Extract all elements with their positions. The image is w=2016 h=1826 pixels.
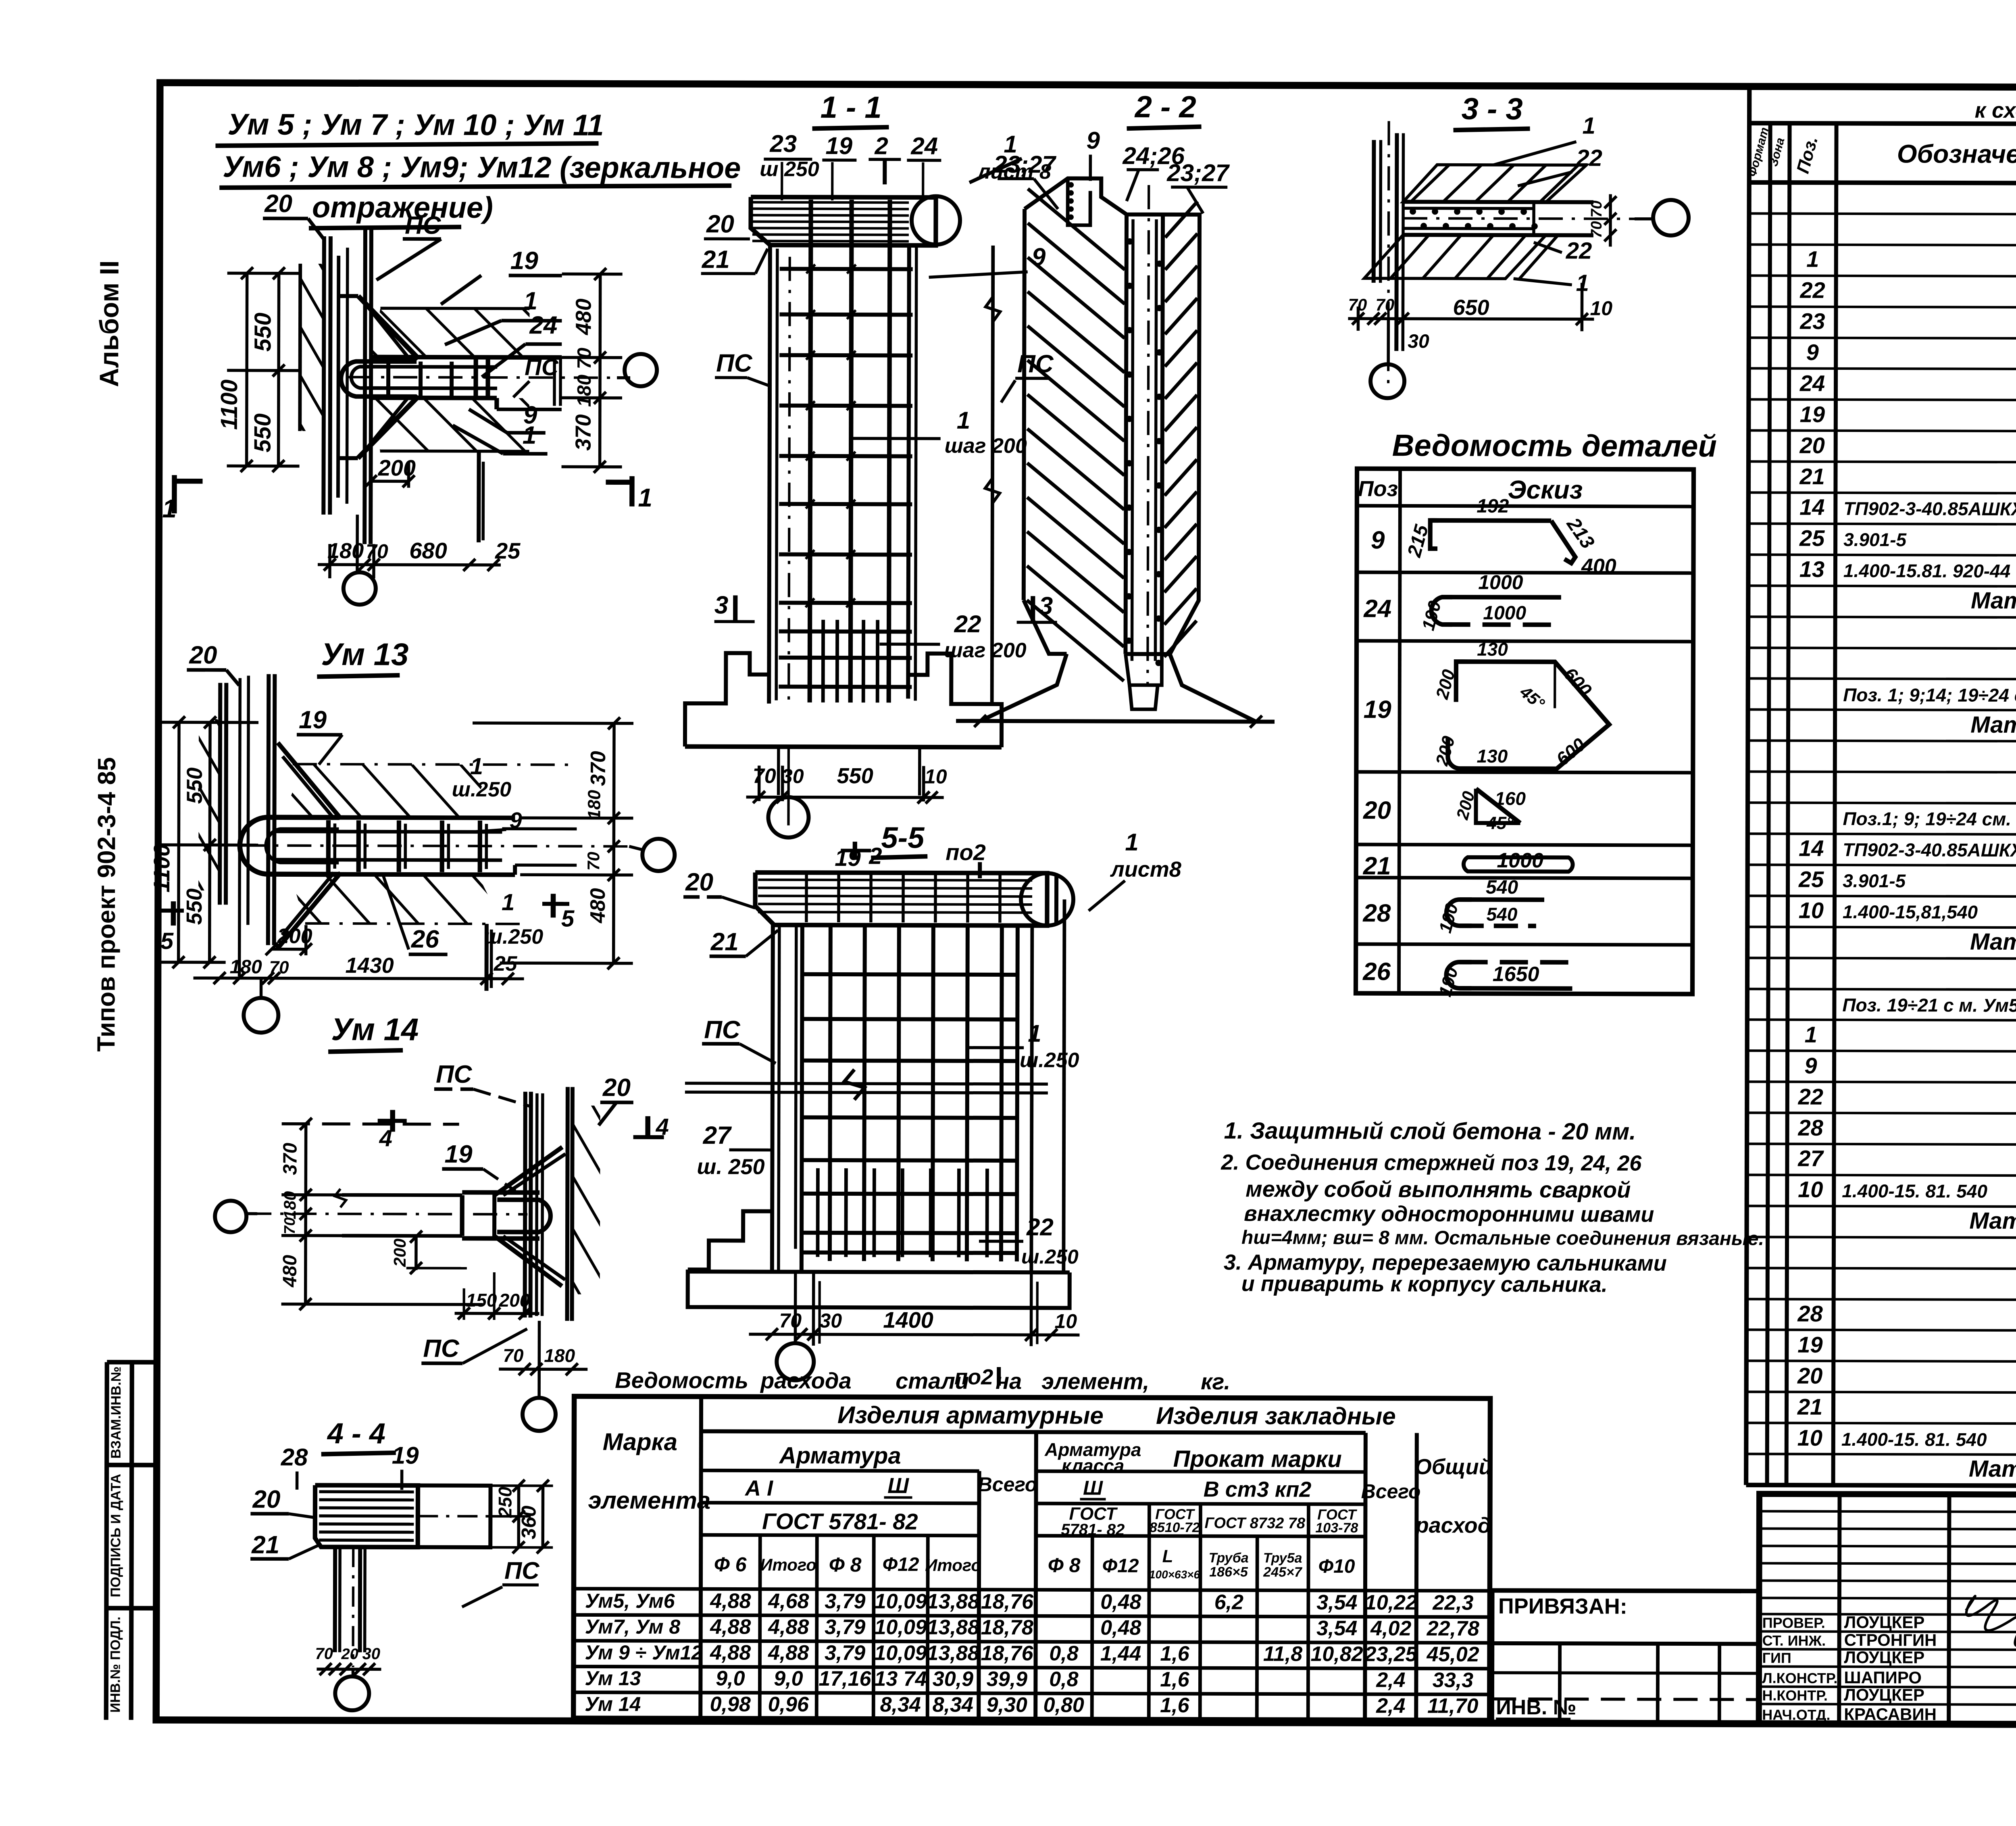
svg-text:Ф10: Ф10: [1318, 1556, 1355, 1577]
svg-text:1100: 1100: [149, 844, 174, 893]
svg-text:39,9: 39,9: [987, 1668, 1027, 1691]
section 4-4: right dims 250/360: [517, 1486, 520, 1547]
svg-text:10,82: 10,82: [1310, 1643, 1363, 1666]
svg-text:22: 22: [954, 611, 981, 638]
svg-text:180: 180: [544, 1345, 575, 1366]
svg-text:Ф 8: Ф 8: [829, 1553, 862, 1576]
svg-text:24: 24: [910, 132, 938, 159]
svg-text:24: 24: [529, 311, 557, 339]
svg-text:27: 27: [1797, 1146, 1824, 1171]
section 2-2: foundation ground line: [956, 721, 1275, 722]
svg-text:21: 21: [1363, 852, 1391, 880]
svg-text:класса: класса: [1062, 1455, 1125, 1476]
svg-text:19: 19: [510, 247, 539, 275]
svg-text:Ф12: Ф12: [883, 1554, 919, 1575]
drawing Um14: capsule hook: [497, 1200, 550, 1232]
drawing Um13: section mark 5 left: [171, 901, 176, 926]
svg-text:ш.250: ш.250: [452, 778, 512, 801]
svg-text:20: 20: [706, 210, 734, 238]
svg-text:10: 10: [1054, 1310, 1077, 1332]
svg-text:к схеме расположения арм.: к схеме расположения арм.: [1975, 98, 2016, 123]
section 2-2: core anchor dots: [1127, 239, 1132, 244]
svg-text:18,76: 18,76: [981, 1590, 1034, 1613]
svg-text:1000: 1000: [1483, 602, 1526, 624]
svg-text:22: 22: [1566, 238, 1592, 264]
svg-text:550: 550: [183, 767, 207, 804]
svg-text:20: 20: [252, 1486, 280, 1513]
sketch pos26 u-bar 1650: [1446, 962, 1472, 988]
svg-text:70: 70: [269, 958, 289, 978]
svg-text:Тру5а: Тру5а: [1263, 1551, 1302, 1566]
sketch pos19 bent bar: [1448, 662, 1610, 769]
svg-text:1: 1: [523, 421, 537, 449]
svg-text:30,9: 30,9: [933, 1668, 973, 1691]
svg-text:4,02: 4,02: [1370, 1617, 1411, 1640]
drawing Um14: wall verticals: [525, 1092, 525, 1317]
svg-text:расхода: расхода: [760, 1368, 852, 1394]
svg-text:1: 1: [957, 407, 971, 434]
section 1-1: bottom mesh dense rungs pos22: [779, 630, 912, 634]
svg-text:между собой выполнять сварко: между собой выполнять сваркой: [1245, 1176, 1631, 1202]
svg-text:10: 10: [1797, 1425, 1822, 1451]
svg-text:10,09: 10,09: [874, 1641, 927, 1665]
svg-text:19: 19: [444, 1140, 473, 1168]
section 5-5: bottom dims 70/30/1400/10: [765, 1334, 1071, 1335]
svg-text:3,54: 3,54: [1316, 1617, 1357, 1640]
privyazan grid lines: [1492, 1643, 1759, 1644]
svg-text:1: 1: [1806, 246, 1819, 272]
svg-text:и приварить к корпусу сальн: и приварить к корпусу сальника.: [1241, 1272, 1608, 1297]
svg-text:480: 480: [571, 298, 596, 335]
svg-text:186×5: 186×5: [1209, 1564, 1248, 1580]
svg-text:ПС: ПС: [716, 349, 753, 377]
drawing Um5: member tie bars: [386, 361, 390, 396]
svg-text:2. Соединения стержней поз 19,: 2. Соединения стержней поз 19, 24, 26: [1220, 1150, 1642, 1175]
svg-text:23,25: 23,25: [1364, 1643, 1417, 1666]
section 2-2: herringbone hatch right: [1165, 201, 1198, 238]
svg-text:19: 19: [299, 706, 327, 734]
svg-text:0,8: 0,8: [1049, 1642, 1079, 1665]
section 1-1: top flange outline: [751, 197, 936, 245]
svg-text:13,88: 13,88: [927, 1616, 979, 1639]
svg-text:1,6: 1,6: [1160, 1642, 1190, 1665]
svg-text:1430: 1430: [345, 953, 394, 978]
section 3-3: upper hatch parallelogram: [1403, 165, 1586, 202]
svg-text:400: 400: [1581, 554, 1616, 578]
svg-text:шаг 200: шаг 200: [944, 639, 1026, 662]
svg-text:3,79: 3,79: [825, 1615, 865, 1639]
section 4-4: bottom dims 70/20/30: [317, 1668, 381, 1671]
drawing Um5: axis circle right: [625, 354, 657, 386]
section 4-4: axis circle: [352, 1669, 355, 1677]
svg-text:1: 1: [1805, 1022, 1817, 1047]
svg-text:19: 19: [1797, 1332, 1822, 1357]
section 2-2: foot inner: [1129, 685, 1158, 709]
title block: signatures scribble: [1966, 1596, 2016, 1665]
svg-text:4,88: 4,88: [710, 1641, 751, 1664]
svg-text:550: 550: [250, 313, 276, 352]
svg-text:1100: 1100: [216, 379, 242, 430]
svg-text:11,70: 11,70: [1427, 1694, 1478, 1718]
svg-text:26: 26: [411, 926, 439, 953]
svg-text:ГИП: ГИП: [1762, 1649, 1791, 1666]
section 3-3: wall verticals: [1372, 140, 1376, 283]
svg-text:28: 28: [1797, 1301, 1823, 1326]
drawing Um5: Y flare bars pos19: [358, 296, 419, 359]
svg-text:5: 5: [561, 905, 575, 932]
svg-text:130: 130: [1477, 746, 1508, 767]
svg-text:1 - 1: 1 - 1: [821, 90, 882, 125]
svg-text:28: 28: [1362, 899, 1391, 927]
section 1-1: foundation right step: [908, 653, 1002, 747]
svg-text:1: 1: [1028, 1020, 1041, 1047]
svg-text:по2: по2: [946, 840, 986, 865]
svg-text:21: 21: [1797, 1394, 1822, 1420]
svg-text:Ф12: Ф12: [1102, 1555, 1139, 1577]
section 2-2: foundation slopes: [980, 654, 1066, 721]
drawing Um14: axis dashdot: [247, 1214, 527, 1215]
drawing Um13: axis circle right: [642, 839, 675, 871]
svg-text:Поз.1; 9; 19÷24 см.: Поз.1; 9; 19÷24 см.: [1843, 808, 2011, 830]
drawing Um5: wall face lines: [323, 236, 324, 515]
svg-text:Ум 13: Ум 13: [321, 636, 408, 672]
section 2-2: core channel verticals: [1125, 215, 1127, 654]
drawing Um14: Y flare into wall: [494, 1147, 562, 1195]
svg-text:Ум5, Ум6: Ум5, Ум6: [585, 1590, 675, 1613]
svg-text:2,4: 2,4: [1376, 1668, 1406, 1692]
drawing Um13: section mark 5 right: [551, 894, 556, 917]
svg-text:1: 1: [1583, 113, 1595, 139]
svg-text:4: 4: [379, 1125, 392, 1151]
svg-text:9: 9: [509, 807, 522, 833]
drawing Um13: pos9 bar lines right: [502, 827, 577, 830]
svg-text:L: L: [1162, 1547, 1173, 1566]
svg-text:20: 20: [685, 868, 713, 896]
sketch pos28 u-bar 540: [1446, 900, 1472, 926]
svg-text:10: 10: [1590, 297, 1612, 319]
svg-text:Ум 14: Ум 14: [585, 1693, 641, 1716]
svg-text:Эскиз: Эскиз: [1508, 475, 1583, 504]
svg-text:27: 27: [703, 1121, 732, 1149]
svg-text:Ум7, Ум 8: Ум7, Ум 8: [585, 1615, 681, 1638]
svg-text:1,6: 1,6: [1160, 1694, 1190, 1717]
drawing Um13: member chords: [275, 817, 515, 818]
svg-text:Поз. 1; 9;14; 19÷24 см: Поз. 1; 9;14; 19÷24 см: [1843, 684, 2016, 706]
drawing Um5: dim 200: [371, 480, 408, 483]
drawing Um5: rebar hook loop: [341, 361, 417, 396]
svg-text:8,34: 8,34: [933, 1693, 973, 1717]
svg-text:1000: 1000: [1497, 849, 1543, 872]
svg-text:18,76: 18,76: [981, 1642, 1033, 1665]
svg-text:10: 10: [1799, 898, 1824, 923]
svg-text:Ш: Ш: [1083, 1476, 1103, 1499]
svg-text:100×63×6: 100×63×6: [1149, 1568, 1200, 1581]
svg-text:70: 70: [753, 765, 776, 788]
svg-text:20: 20: [264, 190, 292, 218]
svg-text:ШАПИРО: ШАПИРО: [1844, 1668, 1922, 1687]
svg-text:540: 540: [1486, 877, 1518, 898]
svg-text:103-78: 103-78: [1315, 1520, 1358, 1536]
title block outer: [1759, 1494, 2016, 1726]
drawing Um5: bottom dim chain 180/70/680/25: [318, 565, 501, 565]
svg-text:ПС: ПС: [525, 354, 559, 380]
svg-text:10,09: 10,09: [875, 1615, 927, 1639]
svg-text:расход: расход: [1415, 1513, 1491, 1537]
drawing Um14: mark 4 left: [390, 1110, 395, 1132]
svg-text:3,54: 3,54: [1316, 1591, 1357, 1614]
section 2-2: foot taper: [1125, 654, 1162, 685]
svg-text:30: 30: [819, 1309, 842, 1332]
svg-text:14: 14: [1799, 494, 1824, 520]
steel table outer frame: [573, 1396, 1490, 1720]
svg-text:21: 21: [710, 928, 739, 956]
section 2-2: anchor notch pos9: [1068, 178, 1090, 225]
sketch pos9 channel bar: [1430, 520, 1438, 548]
section 1-1: horizontal rungs: [780, 267, 913, 271]
svg-text:1.400-15.81. 920-44: 1.400-15.81. 920-44: [1843, 560, 2010, 582]
svg-text:70: 70: [503, 1345, 524, 1366]
svg-text:480: 480: [586, 888, 610, 923]
steel table header: band lines: [701, 1470, 979, 1471]
svg-text:70: 70: [281, 1217, 298, 1234]
svg-text:22: 22: [1798, 1084, 1823, 1109]
svg-text:Материалы: Материалы: [1969, 1208, 2016, 1234]
section 5-5: flange rounded end: [1021, 873, 1073, 926]
svg-text:ПРОВЕР.: ПРОВЕР.: [1762, 1614, 1825, 1631]
svg-text:Материалы: Материалы: [1971, 588, 2016, 614]
svg-text:В ст3 кп2: В ст3 кп2: [1204, 1477, 1312, 1502]
svg-text:20: 20: [189, 641, 217, 669]
svg-text:370: 370: [571, 414, 596, 450]
drawing Um13: axis circle bottom: [260, 978, 263, 998]
svg-text:ПС: ПС: [504, 1557, 540, 1584]
svg-text:2: 2: [874, 132, 888, 159]
svg-text:Поз: Поз: [1358, 477, 1398, 501]
drawing Um13: right dims 370/180/70/480: [614, 723, 614, 963]
svg-text:180: 180: [280, 1191, 299, 1219]
svg-text:ПС: ПС: [436, 1061, 473, 1088]
drawing Um5: left dim chain 1100/550/550: [247, 273, 247, 466]
svg-text:ГОСТ 5781- 82: ГОСТ 5781- 82: [762, 1509, 918, 1534]
section 5-5: foundation left steps: [688, 1211, 772, 1269]
svg-text:ТП902-3-40.85АШКЖИ МН1: ТП902-3-40.85АШКЖИ МН1: [1843, 839, 2016, 861]
section 1-1: leader lines from labels to flange: [781, 162, 783, 200]
svg-text:8,34: 8,34: [880, 1693, 921, 1716]
svg-text:элемент,: элемент,: [1041, 1368, 1149, 1394]
svg-text:19: 19: [1364, 696, 1392, 723]
svg-text:ЛОУЦКЕР: ЛОУЦКЕР: [1844, 1648, 1925, 1667]
drawing Um14: mark 4 right: [645, 1116, 650, 1137]
svg-text:0,8: 0,8: [1049, 1668, 1079, 1691]
svg-text:3,79: 3,79: [825, 1590, 865, 1613]
svg-text:550: 550: [837, 764, 873, 788]
svg-text:Ум 5 ; Ум 7 ; Ум 10 ; Ум 11: Ум 5 ; Ум 7 ; Ум 10 ; Ум 11: [227, 107, 604, 142]
drawing Um5: member chords: [371, 357, 562, 357]
svg-text:10,22: 10,22: [1365, 1591, 1417, 1614]
svg-text:23: 23: [1799, 309, 1825, 334]
svg-text:ПС: ПС: [423, 1335, 460, 1363]
svg-text:9: 9: [1804, 1053, 1817, 1078]
drawing Um13: pos25 vertical line: [484, 924, 488, 991]
svg-text:22,78: 22,78: [1427, 1617, 1479, 1640]
svg-text:70: 70: [584, 852, 603, 871]
drawing Um13: member tie bars: [326, 820, 331, 872]
drawing Um13: axis dashdot: [242, 846, 633, 846]
sketch pos21 flat bar: [1464, 857, 1573, 872]
vedomost detaley frame: [1356, 469, 1693, 994]
svg-text:70: 70: [779, 1309, 802, 1332]
section 4-4: member extension right: [418, 1486, 490, 1547]
svg-text:23;27: 23;27: [993, 151, 1056, 178]
svg-text:25: 25: [494, 952, 518, 976]
drawing Um14: member thin lines: [342, 1193, 462, 1197]
svg-text:hш=4мм; вш= 8 мм. Остальные: hш=4мм; вш= 8 мм. Остальные соединения в…: [1241, 1227, 1764, 1249]
svg-text:3.901-5: 3.901-5: [1843, 870, 1906, 891]
drawing Um5: vertical line pos25: [477, 451, 481, 542]
drawing Um13: Y flare pos19 into wall: [277, 743, 341, 819]
section 1-1: flange rounded end pos1: [912, 196, 960, 244]
svg-text:СТРОНГИН: СТРОНГИН: [1844, 1630, 1937, 1650]
section 1-1: column body verticals: [769, 245, 770, 704]
svg-text:Всего: Всего: [978, 1473, 1037, 1496]
svg-text:Н.КОНТР.: Н.КОНТР.: [1762, 1687, 1828, 1703]
svg-text:КРАСАВИН: КРАСАВИН: [1844, 1705, 1937, 1724]
svg-text:25: 25: [1798, 867, 1824, 892]
section 4-4: member body: [315, 1485, 418, 1547]
svg-text:ПС: ПС: [704, 1016, 741, 1044]
svg-text:ш. 250: ш. 250: [697, 1155, 764, 1179]
svg-text:Ведомость деталей: Ведомость деталей: [1392, 428, 1717, 463]
svg-text:370: 370: [279, 1142, 301, 1175]
svg-text:20: 20: [1799, 433, 1824, 458]
svg-text:Изделия арматурные: Изделия арматурные: [837, 1401, 1104, 1429]
svg-text:Л.КОНСТР.: Л.КОНСТР.: [1762, 1670, 1837, 1686]
svg-text:160: 160: [1495, 788, 1526, 809]
svg-text:Всего: Всего: [1361, 1480, 1421, 1503]
drawing Um14: bottom dims 150/200: [455, 1312, 539, 1315]
svg-text:Общий: Общий: [1415, 1455, 1492, 1479]
svg-text:4: 4: [656, 1114, 669, 1140]
svg-text:180: 180: [230, 956, 262, 978]
svg-text:20: 20: [1363, 796, 1391, 824]
svg-text:19: 19: [392, 1442, 419, 1469]
svg-text:70: 70: [1588, 200, 1605, 217]
svg-text:ПРИВЯЗАН:: ПРИВЯЗАН:: [1498, 1594, 1627, 1619]
svg-text:33,3: 33,3: [1433, 1669, 1473, 1692]
svg-text:3.901-5: 3.901-5: [1843, 529, 1907, 550]
section 1-1: flange horizontal rebars: [752, 201, 909, 204]
drawing Um14: member box: [460, 1195, 464, 1236]
section 3-3: member horizontal: [1403, 202, 1593, 202]
svg-text:680: 680: [409, 538, 447, 563]
drawing Um14: bottom dims 70/180: [499, 1367, 587, 1371]
drawing Um13: bottom dims 200/180/70/1430/25: [272, 948, 306, 951]
svg-text:0,98: 0,98: [710, 1693, 751, 1716]
svg-text:Материалы: Материалы: [1969, 1456, 2016, 1482]
svg-text:1: 1: [162, 494, 177, 523]
svg-text:ИНВ.№ ПОДЛ.: ИНВ.№ ПОДЛ.: [108, 1617, 123, 1713]
steel table data rows: [574, 1588, 1490, 1590]
svg-text:Ф 8: Ф 8: [1048, 1554, 1081, 1576]
svg-text:ВЗАМ.ИНВ.№: ВЗАМ.ИНВ.№: [108, 1366, 124, 1459]
svg-text:11,8: 11,8: [1263, 1643, 1303, 1666]
svg-text:180 70: 180 70: [574, 348, 595, 407]
svg-text:70: 70: [366, 540, 388, 563]
section 5-5: foundation slab: [688, 1269, 1070, 1308]
section 5-5: dense bottom mesh pos22: [816, 1168, 820, 1257]
svg-text:1. Защитный слой бетона - 2: 1. Защитный слой бетона - 20 мм.: [1224, 1117, 1636, 1144]
svg-text:21: 21: [251, 1531, 279, 1559]
svg-text:19: 19: [1800, 402, 1825, 427]
drawing Um5: panel rebar line: [338, 256, 338, 498]
section 1-1: foundation slab: [685, 746, 1002, 747]
svg-text:ИНВ. №: ИНВ. №: [1496, 1696, 1576, 1719]
svg-text:25: 25: [495, 538, 521, 563]
svg-text:ш 250: ш 250: [760, 158, 819, 181]
svg-text:9: 9: [1371, 526, 1385, 554]
svg-text:Поз. 19÷21 с м. Ум5: Поз. 19÷21 с м. Ум5: [1842, 994, 2016, 1016]
section 1-1: axis circle: [768, 797, 808, 838]
section 2-2: wall outline: [1023, 178, 1200, 654]
svg-text:ЛОУЦКЕР: ЛОУЦКЕР: [1844, 1613, 1925, 1632]
steel table: vertical lines: [760, 1535, 760, 1719]
svg-text:2,4: 2,4: [1376, 1694, 1406, 1718]
svg-text:20: 20: [602, 1074, 631, 1102]
drawing Um5: section mark 1 left: [172, 475, 177, 513]
svg-text:Ф 6: Ф 6: [714, 1553, 747, 1576]
svg-text:13 74: 13 74: [874, 1667, 927, 1691]
section 5-5: right edge verticals: [1031, 926, 1032, 1272]
svg-text:Ум 13: Ум 13: [585, 1667, 641, 1690]
svg-text:650: 650: [1453, 296, 1489, 320]
svg-text:3: 3: [714, 591, 729, 619]
svg-text:540: 540: [1487, 904, 1518, 925]
svg-text:28: 28: [281, 1444, 308, 1471]
svg-text:8510-72: 8510-72: [1150, 1520, 1200, 1535]
svg-text:Труба: Труба: [1209, 1550, 1249, 1565]
svg-text:192: 192: [1477, 496, 1509, 517]
svg-text:Материалы: Материалы: [1970, 712, 2016, 738]
svg-text:4 - 4: 4 - 4: [327, 1417, 385, 1450]
section 3-3: bottom dim chain 70/70/650/10: [1348, 319, 1594, 319]
svg-text:СТ. ИНЖ.: СТ. ИНЖ.: [1762, 1632, 1826, 1649]
bottom-left stamp column: [106, 1362, 107, 1720]
svg-text:22: 22: [1576, 145, 1602, 171]
svg-text:45°: 45°: [1486, 813, 1514, 833]
svg-text:250: 250: [494, 1486, 515, 1518]
svg-text:9: 9: [1806, 340, 1819, 365]
svg-text:21: 21: [1799, 464, 1824, 489]
svg-text:10,09: 10,09: [875, 1590, 927, 1613]
sketch pos24 u-bar: [1431, 597, 1452, 625]
svg-text:НАЧ.ОТД.: НАЧ.ОТД.: [1762, 1706, 1830, 1723]
section 3-3: axis circle bottom: [1387, 319, 1390, 363]
svg-text:Изделия закладные: Изделия закладные: [1156, 1402, 1396, 1430]
section 3-3: member anchor dots: [1410, 209, 1415, 214]
svg-text:14: 14: [1799, 836, 1824, 861]
svg-text:4,88: 4,88: [710, 1589, 751, 1613]
svg-text:150: 150: [466, 1290, 497, 1311]
svg-text:13: 13: [1799, 557, 1824, 582]
svg-text:10: 10: [925, 765, 947, 788]
svg-text:Арматура: Арматура: [779, 1442, 901, 1469]
svg-text:25: 25: [1799, 525, 1825, 551]
svg-text:1,6: 1,6: [1160, 1668, 1190, 1691]
section 3-3: axis circle right: [1653, 200, 1689, 236]
svg-text:22: 22: [1799, 277, 1825, 303]
svg-text:70: 70: [1348, 295, 1367, 314]
svg-text:23: 23: [769, 130, 797, 157]
